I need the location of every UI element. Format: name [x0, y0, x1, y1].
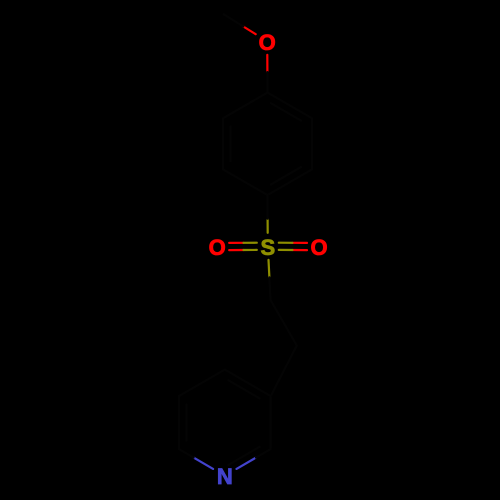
bond CH2-CH2	[271, 300, 297, 346]
bond S-CH2 (hetero half)	[267, 260, 270, 278]
double bond S=O right O-half	[292, 249, 307, 251]
svg-text:S: S	[260, 235, 275, 260]
bond benzene LL-B	[223, 169, 267, 195]
double bond S=O right S-half	[279, 242, 293, 244]
bond benzene T-UR	[268, 93, 312, 119]
bond O-CH3 (methoxy methyl) (carbon half)	[224, 14, 244, 26]
svg-text:O: O	[310, 235, 327, 260]
pyridine inner double N-NR	[228, 447, 259, 465]
svg-text:O: O	[259, 30, 276, 55]
bond CH2-ring	[271, 346, 297, 397]
double bond S=O right O-half	[292, 242, 307, 244]
double bond S=O left O-half	[229, 249, 243, 251]
bond pyridine R2-NR	[270, 396, 272, 449]
double bond S=O left S-half	[244, 242, 257, 244]
bond S-CH2 (carbon half)	[269, 277, 270, 300]
bond benzene UR-LR	[311, 118, 313, 169]
double bond S=O left S-half	[244, 249, 257, 251]
bond O-CH3 (methoxy methyl) (hetero half)	[243, 27, 255, 35]
bond pyridine N-LLv (carbon half)	[179, 449, 194, 458]
benzene inner double UL-LL	[230, 126, 232, 161]
bond benzene UL-LL	[222, 118, 224, 169]
bond pyridine N-NR (carbon half)	[256, 449, 271, 458]
pyridine inner double TOP-R2	[228, 380, 259, 398]
svg-text:O: O	[209, 235, 226, 260]
bond pyridine LU-TOP	[179, 370, 225, 397]
bond S-Car (ring to sulfonyl) (carbon half)	[266, 195, 268, 219]
bond pyridine TOP-R2	[225, 370, 271, 397]
bond O-C1ar (methoxy to ring) (hetero half)	[266, 55, 268, 72]
bond pyridine N-LLv (hetero half)	[194, 458, 214, 469]
bond O-C1ar (methoxy to ring) (carbon half)	[266, 72, 268, 93]
bond benzene T-UL	[223, 93, 267, 119]
svg-text:N: N	[217, 464, 233, 489]
benzene inner double LR-B	[271, 167, 301, 185]
bond pyridine LLv-LU	[178, 396, 180, 449]
bond benzene LR-B	[268, 169, 312, 195]
double bond S=O right S-half	[279, 249, 293, 251]
bond S-Car (ring to sulfonyl) (hetero half)	[267, 219, 269, 233]
bond pyridine N-NR (hetero half)	[237, 458, 257, 469]
benzene inner double T-UR	[271, 103, 301, 120]
double bond S=O left O-half	[229, 242, 243, 244]
pyridine inner double LU-LLv	[185, 405, 187, 441]
